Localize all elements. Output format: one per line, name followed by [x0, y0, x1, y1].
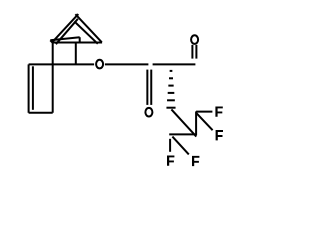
cage corner connector at L: [50, 40, 52, 42]
cage double bond left inner line: [56, 19, 78, 44]
cyclobutane square top edge continuing to R: [53, 41, 102, 43]
square right edge: [75, 43, 77, 65]
bond V1 to V2: [195, 111, 197, 135]
C3=O double bond line 1: [191, 45, 193, 59]
hashed wedge dash 2: [169, 77, 173, 79]
C1=O double bond line 1: [146, 70, 148, 105]
carbonyl O label below C1: [145, 108, 152, 117]
hashed wedge C2 down to C4 dash 1: [170, 70, 173, 72]
bond V3 to F4: [172, 137, 188, 155]
cage double bond right main line: [75, 14, 101, 42]
bond V2 to F2: [196, 113, 213, 131]
hashed wedge dash 6: [166, 107, 175, 109]
bond V2 to F1: [196, 111, 212, 113]
cyclobutene bottom edge: [29, 112, 53, 114]
cyclobutene left edge (double bond outer): [28, 64, 30, 112]
wire main horizontal to ester O: [29, 63, 95, 65]
C1=O double bond line 2: [150, 70, 152, 105]
F2 label: [216, 130, 223, 140]
ester O label: [96, 60, 103, 69]
cage edge L to step: [50, 37, 79, 40]
hashed wedge dash 5: [167, 99, 175, 101]
aldehyde O label above C3: [191, 35, 198, 44]
cage step vertical: [79, 37, 81, 42]
square left edge / cyclobutene right edge: [52, 43, 54, 113]
F3 label: [167, 155, 174, 165]
cage double bond left main line: [52, 14, 78, 42]
C3=O double bond line 2: [195, 45, 197, 59]
bond ester O to carbonyl C1: [105, 63, 148, 65]
bond C4 to V1: [171, 109, 196, 136]
F1 label: [215, 106, 222, 116]
hashed wedge dash 4: [168, 92, 175, 94]
F4 label: [192, 156, 199, 166]
bond C1 to C2 to C3: [153, 63, 196, 65]
cage double bond right inner line: [74, 21, 98, 43]
bond V3 to F3: [169, 139, 171, 152]
cyclobutene double bond inner line: [32, 66, 34, 110]
bond V1 to V3: [169, 133, 196, 135]
hashed wedge dash 3: [168, 85, 173, 87]
